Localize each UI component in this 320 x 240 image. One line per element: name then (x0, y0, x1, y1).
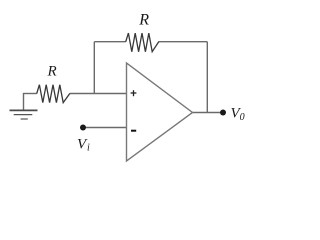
svg-text:Vi: Vi (77, 136, 90, 153)
svg-text:R: R (47, 64, 57, 80)
svg-text:V0: V0 (231, 106, 245, 124)
svg-text:R: R (138, 11, 149, 28)
